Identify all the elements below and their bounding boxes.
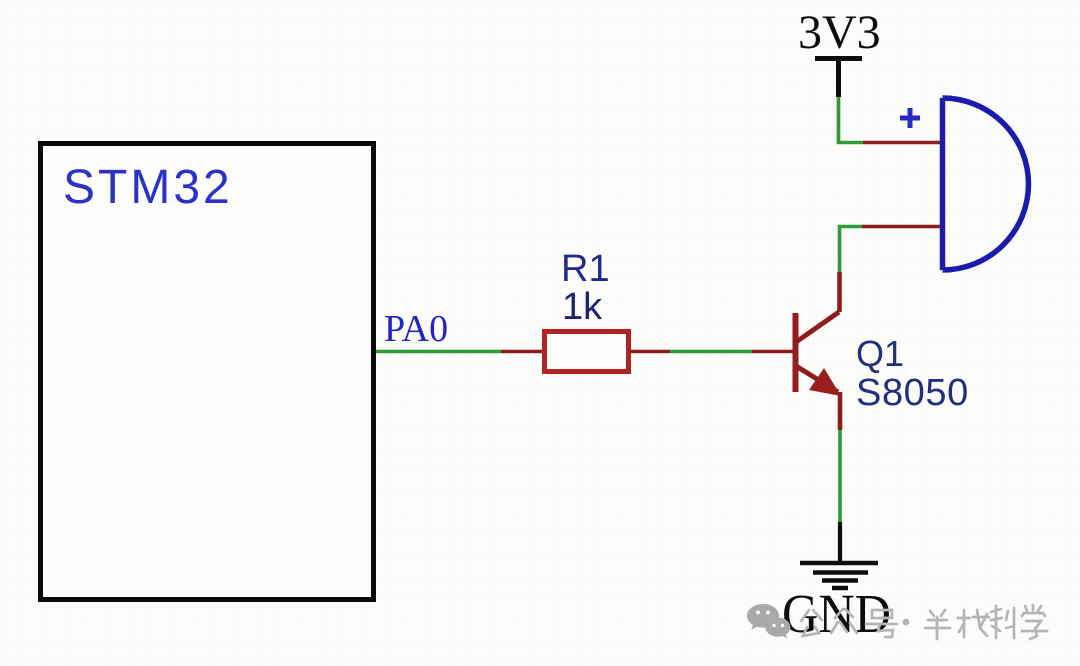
char ke — [991, 606, 1014, 638]
wire to buzzer bottom pin (dark red segment) — [862, 225, 942, 229]
wire emitter down (green segment) — [838, 430, 842, 522]
char hao — [866, 610, 897, 637]
ground symbol — [800, 563, 878, 588]
buzzer LS1 body — [943, 98, 1029, 270]
svg-text:STM32: STM32 — [63, 161, 233, 214]
svg-text:Q1: Q1 — [856, 333, 904, 374]
svg-text:PA0: PA0 — [384, 308, 448, 350]
wire 3V3 down (green segment with corner) — [839, 97, 864, 143]
wire R1 to Q1 base (dark red segment) — [629, 350, 670, 354]
wire collector up (dark red segment) — [837, 272, 842, 312]
power symbol 3V3 bar — [815, 56, 862, 61]
wire 3V3 stem (black segment) — [836, 58, 841, 97]
char zhong — [831, 609, 857, 633]
wire to ground (black segment) — [838, 522, 842, 562]
char zhan — [958, 610, 989, 637]
svg-text:R1: R1 — [561, 248, 610, 290]
transistor Q1 emitter diagonal — [796, 366, 838, 392]
char xue — [1022, 605, 1047, 639]
wire collector corner (green segment) — [840, 227, 863, 273]
char ban — [925, 610, 950, 639]
wire emitter down (dark red segment) — [838, 392, 843, 430]
watermark wechat icon — [747, 604, 790, 638]
wire R1 to Q1 base (green segment) — [670, 350, 752, 354]
component body STM32 (U1 box) — [41, 144, 374, 600]
watermark text (hand-drawn CJK strokes) — [801, 609, 897, 637]
wire to buzzer plus pin (dark red segment) — [863, 141, 942, 145]
svg-text:1k: 1k — [562, 286, 603, 328]
middle dot — [903, 619, 910, 626]
transistor Q1 base bar — [793, 313, 799, 392]
transistor Q1 collector diagonal — [796, 312, 839, 342]
wire R1 to Q1 base (dark red segment near base) — [752, 350, 795, 354]
resistor R1 — [545, 332, 629, 372]
wire PA0 to R1 (green segment) — [376, 350, 501, 354]
buzzer LS1 plus sign — [900, 108, 920, 128]
svg-text:S8050: S8050 — [856, 372, 969, 414]
svg-text:GND: GND — [782, 583, 891, 644]
transistor Q1 emitter arrow — [809, 368, 841, 396]
char gong — [801, 610, 822, 636]
svg-text:3V3: 3V3 — [798, 6, 881, 59]
wire PA0 to R1 (dark red segment) — [501, 350, 544, 354]
